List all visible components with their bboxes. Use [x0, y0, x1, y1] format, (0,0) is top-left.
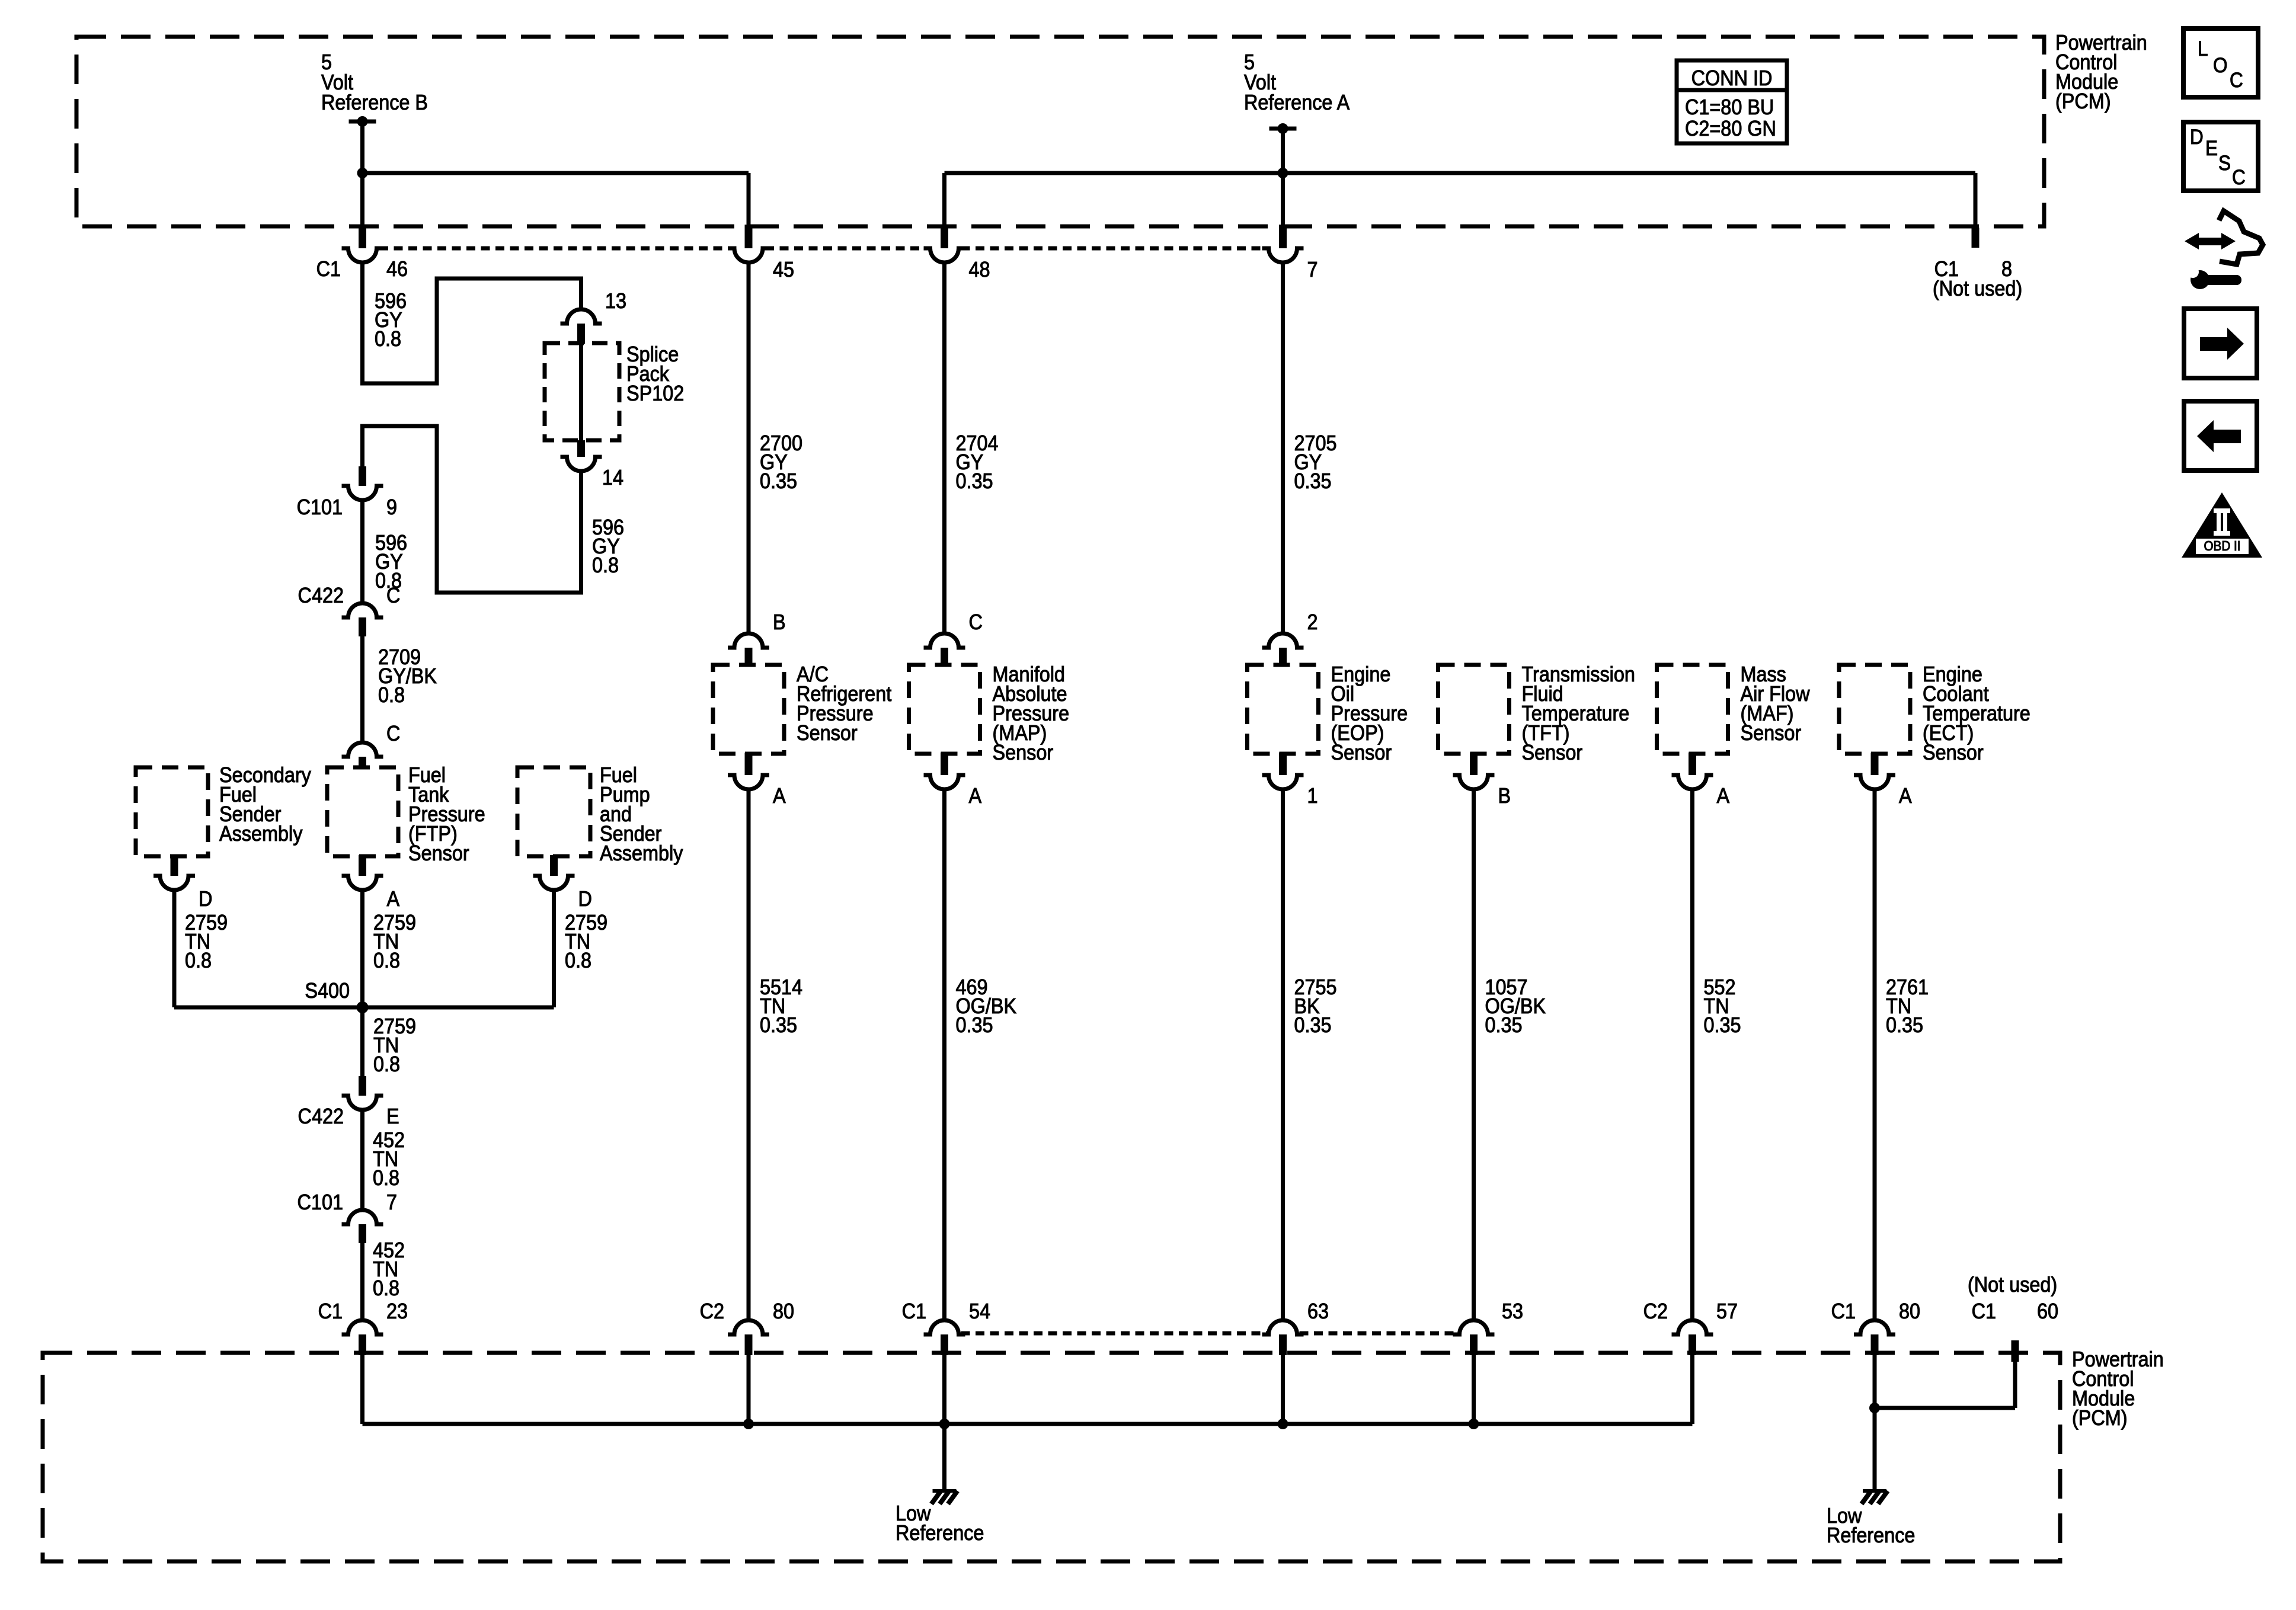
connector C1 pin 80 — [1854, 1320, 1895, 1334]
wire 2755 (return) — [1281, 789, 1285, 1320]
svg-text:O: O — [2213, 55, 2227, 78]
svg-text:A: A — [1717, 784, 1730, 808]
svg-text:S400: S400 — [305, 979, 350, 1003]
svg-text:23: 23 — [386, 1299, 408, 1323]
connector C2 pin 57 — [1672, 1320, 1713, 1334]
ground (right low reference) — [1863, 1489, 1886, 1493]
svg-text:S: S — [2218, 152, 2231, 175]
svg-text:0.8: 0.8 — [592, 553, 619, 577]
icon arrow left box — [2184, 401, 2257, 470]
pin C1 60 stub (not used) — [2012, 1340, 2019, 1362]
Engine Oil Pressure (EOP) sensor box — [1248, 665, 1319, 754]
svg-text:A: A — [773, 784, 786, 808]
svg-text:C1=80 BU: C1=80 BU — [1685, 95, 1774, 119]
connector sensor pin 2 — [1262, 633, 1304, 648]
wire 1057 (return) — [1472, 789, 1476, 1320]
svg-text:0.8: 0.8 — [373, 1276, 399, 1300]
svg-text:A: A — [387, 887, 400, 911]
svg-text:C1: C1 — [316, 257, 341, 281]
junction ref A — [1278, 168, 1288, 178]
wire S400 bus — [174, 1006, 554, 1010]
wire pin 60 drop — [2013, 1362, 2017, 1408]
wire 5V ref A drop — [1281, 129, 1285, 173]
connector C1 pin 23 — [342, 1320, 383, 1334]
dotted connector line C1 (top) — [379, 247, 733, 251]
wire pin 23 internal — [360, 1353, 364, 1424]
connector pin 53 — [1453, 1320, 1495, 1334]
wire 2700 (A/C Refrigerent Pressure feed) — [747, 263, 751, 633]
svg-text:80: 80 — [773, 1299, 794, 1323]
svg-text:Sensor: Sensor — [1923, 741, 1984, 764]
splice pack SP102 box — [545, 343, 619, 440]
svg-text:2: 2 — [1307, 610, 1318, 634]
svg-text:45: 45 — [773, 258, 794, 281]
svg-text:Sensor: Sensor — [993, 741, 1054, 764]
svg-text:0.8: 0.8 — [378, 683, 405, 707]
svg-text:14: 14 — [602, 466, 623, 489]
CONN ID table — [1677, 60, 1787, 143]
connector FTP pin C — [342, 742, 383, 757]
wire 2761 (return) — [1873, 789, 1877, 1320]
svg-text:80: 80 — [1899, 1299, 1920, 1323]
wire bus to pin 45 — [747, 173, 751, 226]
junction ECT internal — [1869, 1403, 1880, 1413]
svg-text:B: B — [1498, 784, 1511, 808]
svg-text:D: D — [199, 887, 212, 911]
wire ref B bus — [363, 171, 749, 175]
svg-text:C: C — [2230, 69, 2243, 92]
terminal 5 Volt Reference B — [349, 120, 376, 124]
svg-text:7: 7 — [386, 1190, 397, 1214]
svg-text:0.35: 0.35 — [1704, 1013, 1741, 1037]
wire ref B to pin 46 — [360, 173, 364, 226]
svg-text:A: A — [1899, 784, 1912, 808]
wire 596 GY (SP102 14 to C101 9) — [363, 426, 581, 593]
svg-text:C422: C422 — [298, 584, 344, 607]
wire bus to pin 7 — [1281, 173, 1285, 226]
svg-text:0.35: 0.35 — [1485, 1013, 1523, 1037]
junction bus x=1263.0 — [743, 1419, 754, 1429]
connector C422 pin E — [359, 1076, 366, 1096]
icon service tool (double arrow, outline, wrench) — [2185, 233, 2199, 249]
svg-text:C2: C2 — [700, 1299, 724, 1323]
icon OBD II triangle — [2182, 492, 2262, 558]
wire bus to pin 48 — [942, 173, 946, 226]
Transmission Fluid Temperature (TFT) sensor box — [1438, 665, 1510, 754]
wire 452 TN (C422 E down) — [360, 1110, 364, 1210]
svg-text:C: C — [386, 722, 400, 745]
connector pin 7 — [1279, 225, 1287, 248]
svg-text:C101: C101 — [297, 495, 343, 519]
wire 2759 TN (S400 down) — [360, 1007, 364, 1076]
svg-text:0.35: 0.35 — [956, 469, 993, 493]
svg-text:D: D — [578, 887, 592, 911]
icon arrow right box — [2184, 309, 2257, 378]
svg-text:(Not used): (Not used) — [1968, 1273, 2057, 1297]
connector sensor pin B — [1470, 753, 1478, 775]
svg-text:0.35: 0.35 — [1294, 1013, 1332, 1037]
svg-text:SP102: SP102 — [626, 382, 684, 405]
svg-text:Reference: Reference — [1827, 1523, 1915, 1547]
svg-text:57: 57 — [1716, 1299, 1738, 1323]
A/C Refrigerent Pressure sensor box — [713, 665, 784, 754]
svg-text:1: 1 — [1307, 784, 1318, 808]
svg-text:A: A — [969, 784, 982, 808]
connector sensor pin A — [1689, 753, 1696, 775]
connector pin D (fuel, x=934.5) — [550, 855, 558, 876]
connector C422 pin C — [342, 603, 383, 617]
svg-text:7: 7 — [1307, 258, 1318, 281]
wire 2705 (Engine Oil Pressure (EOP) feed) — [1281, 263, 1285, 633]
Engine Coolant Temperature (ECT) sensor box — [1839, 665, 1910, 754]
svg-text:9: 9 — [386, 495, 397, 519]
connector pin 63 — [1262, 1320, 1304, 1334]
wire 2759 TN (secondary to S400) — [172, 890, 177, 1007]
wire 452 TN (C101 7 down) — [360, 1243, 364, 1320]
icon DESC box — [2183, 122, 2258, 191]
svg-text:0.35: 0.35 — [956, 1013, 993, 1037]
svg-text:0.8: 0.8 — [373, 949, 400, 972]
connector pin 45 — [745, 225, 753, 248]
svg-text:Reference: Reference — [896, 1521, 984, 1545]
svg-text:C1: C1 — [902, 1299, 926, 1323]
Manifold Absolute Pressure (MAP) sensor box — [909, 665, 980, 754]
wire 596 GY (C1 46 to SP102) — [363, 263, 581, 383]
wire 2709 GY/BK (C422 C to FTP C) — [360, 636, 364, 742]
svg-text:0.35: 0.35 — [760, 1013, 797, 1037]
svg-text:0.8: 0.8 — [375, 327, 401, 351]
svg-text:C1: C1 — [1831, 1299, 1856, 1323]
svg-text:Sensor: Sensor — [408, 841, 469, 865]
Mass Air Flow (MAF) sensor box — [1657, 665, 1728, 754]
wire internal drop x=1593.5 — [942, 1353, 946, 1424]
svg-text:(PCM): (PCM) — [2055, 89, 2111, 113]
icon LOC box — [2183, 28, 2258, 97]
connector C2 pin 80 — [728, 1320, 769, 1334]
svg-text:0.8: 0.8 — [373, 1052, 400, 1076]
Fuel Pump and Sender Assembly box — [517, 767, 590, 856]
svg-text:0.8: 0.8 — [185, 949, 212, 972]
wire 552 (return) — [1690, 789, 1694, 1320]
pin C1 8 stub (not used) — [1972, 228, 1980, 248]
connector pin A (fuel, x=611.5) — [359, 855, 366, 876]
wire bus to ground (left) — [942, 1424, 946, 1490]
svg-text:Sensor: Sensor — [1331, 741, 1392, 764]
connector pin 48 — [941, 225, 948, 248]
svg-text:Sensor: Sensor — [797, 721, 858, 745]
svg-text:53: 53 — [1502, 1299, 1523, 1323]
wire 2704 (Manifold Absolute Pressure (MAP) feed) — [942, 263, 946, 633]
svg-text:B: B — [773, 610, 786, 634]
svg-text:0.8: 0.8 — [373, 1166, 399, 1190]
wire through SP102 — [579, 344, 583, 440]
connector sensor pin 1 — [1279, 753, 1287, 775]
ground (left low reference) — [933, 1489, 957, 1493]
svg-text:46: 46 — [386, 257, 408, 281]
svg-text:C: C — [969, 610, 983, 634]
svg-text:CONN ID: CONN ID — [1691, 66, 1773, 90]
connector SP102 pin 13 — [561, 309, 602, 324]
wire ref A bus left — [945, 171, 1283, 175]
svg-text:(Not used): (Not used) — [1933, 277, 2022, 300]
connector C1 pin 54 — [924, 1320, 965, 1334]
wire 5514 (return) — [747, 789, 751, 1320]
connector sensor pin C — [924, 633, 965, 648]
svg-text:OBD II: OBD II — [2204, 538, 2240, 553]
svg-text:Sensor: Sensor — [1741, 721, 1802, 745]
wire ECT internal to ground — [1873, 1353, 1877, 1490]
junction bus x=2486.5 — [1469, 1419, 1479, 1429]
Fuel Tank Pressure sensor box — [327, 767, 398, 856]
connector sensor pin B — [728, 633, 769, 648]
wire ref A bus right — [1283, 171, 1976, 175]
svg-text:Sensor: Sensor — [1522, 741, 1583, 764]
svg-text:C1: C1 — [318, 1299, 343, 1323]
svg-text:63: 63 — [1307, 1299, 1329, 1323]
wire 596 GY (C101 9 to C422 C) — [360, 500, 364, 603]
svg-text:E: E — [2205, 137, 2218, 161]
wire low reference bus — [363, 1422, 1693, 1426]
connector C1 pin 46 — [359, 225, 366, 248]
connector sensor pin A — [745, 753, 753, 775]
wire internal drop x=1263.0 — [747, 1353, 751, 1424]
svg-text:C101: C101 — [298, 1190, 343, 1214]
svg-text:C2=80 GN: C2=80 GN — [1685, 117, 1776, 140]
svg-text:C: C — [386, 584, 400, 607]
svg-text:0.8: 0.8 — [565, 949, 591, 972]
svg-text:0.35: 0.35 — [1294, 469, 1332, 493]
connector sensor pin A — [941, 753, 948, 775]
svg-text:Reference B: Reference B — [321, 91, 428, 114]
connector C101 pin 9 — [359, 466, 366, 486]
junction bus x=1593.5 — [939, 1419, 950, 1429]
terminal 5 Volt Reference A — [1269, 127, 1297, 131]
svg-text:60: 60 — [2037, 1299, 2058, 1323]
junction bus x=2164.5 — [1278, 1419, 1288, 1429]
PCM module box (bottom) — [43, 1353, 2060, 1561]
svg-text:0.35: 0.35 — [1886, 1013, 1923, 1037]
dotted connector line (bottom) — [961, 1331, 1267, 1336]
wire pin 57 internal — [1690, 1353, 1694, 1424]
svg-text:C1: C1 — [1972, 1299, 1996, 1323]
svg-text:D: D — [2190, 126, 2204, 149]
junction ref B — [357, 168, 368, 178]
connector pin D (fuel, x=294) — [171, 855, 178, 876]
svg-text:Assembly: Assembly — [219, 822, 303, 846]
wire 2759 TN (FTP to S400) — [360, 890, 364, 1007]
svg-text:48: 48 — [969, 258, 990, 281]
splice S400 — [357, 1001, 369, 1013]
svg-text:Assembly: Assembly — [600, 841, 683, 865]
svg-text:C422: C422 — [298, 1105, 344, 1128]
PCM module box (top) — [76, 37, 2044, 226]
svg-text:L: L — [2198, 38, 2208, 61]
svg-text:C2: C2 — [1643, 1299, 1668, 1323]
wire internal to pin 60 — [1875, 1406, 2015, 1410]
wire bus to pin 8 — [1974, 173, 1978, 228]
wire internal drop x=2486.5 — [1472, 1353, 1476, 1424]
Secondary Fuel Sender Assembly box — [136, 767, 208, 856]
svg-text:0.35: 0.35 — [760, 469, 797, 493]
svg-text:E: E — [386, 1105, 399, 1128]
wire 2759 TN (fuel pump to S400) — [552, 890, 556, 1007]
connector C101 pin 7 — [342, 1210, 383, 1224]
connector sensor pin A — [1871, 753, 1879, 775]
svg-text:54: 54 — [969, 1299, 990, 1323]
wire 5V ref B drop — [360, 121, 364, 173]
wire 469 (return) — [942, 789, 946, 1320]
svg-text:C: C — [2232, 167, 2246, 190]
svg-text:Reference A: Reference A — [1244, 91, 1350, 114]
wire internal drop x=2164.5 — [1281, 1353, 1285, 1424]
connector SP102 pin 14 — [577, 440, 585, 457]
svg-text:(PCM): (PCM) — [2072, 1406, 2128, 1430]
svg-text:13: 13 — [605, 289, 626, 313]
